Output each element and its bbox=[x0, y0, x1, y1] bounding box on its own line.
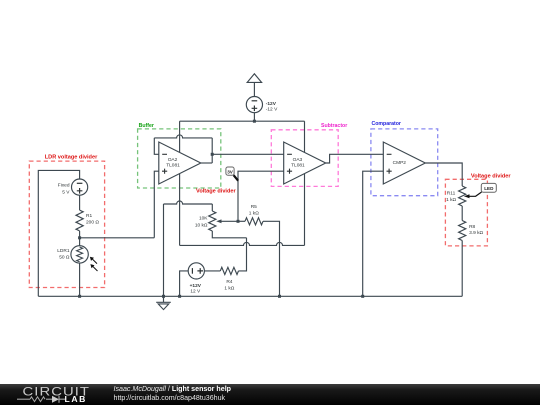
wire OA2 output bbox=[201, 162, 212, 164]
group box: Subtractor bbox=[271, 130, 338, 187]
wire R8 to ground bus bbox=[461, 241, 463, 297]
wire LDR1 to ground bus bbox=[79, 263, 81, 296]
node label LED bbox=[481, 183, 496, 192]
svg-text:1 kΩ: 1 kΩ bbox=[446, 197, 456, 203]
svg-text:1 kΩ: 1 kΩ bbox=[224, 286, 234, 292]
svg-text:R1: R1 bbox=[86, 213, 92, 219]
wire ground bus bbox=[38, 295, 462, 297]
wire V2 minus to ground bus bbox=[180, 271, 189, 296]
wire CMP2 non-inverting input to ground bus bbox=[363, 171, 384, 296]
svg-text:-12V: -12V bbox=[266, 101, 277, 107]
wire V1 top around left to ground bus bbox=[38, 170, 79, 296]
svg-text:Voltage divider: Voltage divider bbox=[471, 174, 512, 180]
wire node A to buffer input bbox=[80, 237, 155, 239]
svg-text:LED: LED bbox=[484, 186, 494, 191]
junction: wiper node (3V) bbox=[237, 220, 240, 223]
node label 3V bbox=[226, 167, 238, 181]
photoresistor LDR1 bbox=[71, 246, 88, 263]
wire pot top down to ground bus bbox=[163, 204, 165, 296]
group box: Voltage divider (right) bbox=[445, 179, 487, 246]
junction: V2 to ground bus bbox=[178, 295, 181, 298]
group box: Comparator bbox=[371, 129, 438, 196]
resistor R1 bbox=[76, 210, 83, 231]
wire V2 plus to R4 bbox=[204, 270, 220, 272]
wire R4 to pot bottom riser bbox=[239, 238, 247, 271]
svg-text:-12 V: -12 V bbox=[266, 106, 278, 112]
svg-text:OA3: OA3 bbox=[293, 157, 303, 163]
svg-text:TL081: TL081 bbox=[291, 163, 305, 169]
svg-text:R4: R4 bbox=[226, 279, 232, 285]
wire negative supply top bus bbox=[180, 120, 305, 122]
svg-text:1 kΩ: 1 kΩ bbox=[249, 211, 259, 217]
svg-text:200 Ω: 200 Ω bbox=[86, 220, 99, 226]
svg-text:5 V: 5 V bbox=[62, 189, 70, 195]
pot wiper arrow bbox=[216, 219, 238, 223]
wire node A to LDR1 bbox=[79, 238, 81, 246]
svg-text:LAB: LAB bbox=[65, 394, 87, 404]
wire V- rail with two hops bbox=[180, 242, 305, 245]
wire V3 bottom to bus bbox=[253, 113, 255, 122]
banner line 1 bbox=[114, 385, 232, 393]
svg-text:OA2: OA2 bbox=[168, 157, 178, 163]
wire pot top lead bbox=[211, 204, 213, 211]
wire OA2 inverting input up bbox=[154, 138, 159, 154]
CircuitLab logo bbox=[0, 384, 110, 405]
voltage source V3 (-12V) bbox=[246, 97, 262, 113]
junction: LDR1 to ground bus bbox=[78, 295, 81, 298]
svg-text:LDR1: LDR1 bbox=[57, 248, 70, 254]
junction: buffer output node bbox=[211, 153, 214, 156]
logo doodle resistor bbox=[30, 397, 45, 402]
wire V1 bottom to R1 bbox=[79, 195, 81, 210]
power flag (supply arrow) bbox=[247, 74, 261, 83]
potentiometer 10K bbox=[209, 211, 216, 231]
junction: ground node on bus bbox=[162, 295, 165, 298]
resistor R4 bbox=[220, 267, 238, 274]
junction: CMP2 ref to ground bus bbox=[361, 295, 364, 298]
junction: V3 to top bus bbox=[253, 120, 256, 123]
group box: LDR voltage divider bbox=[29, 161, 104, 287]
wire wiper to OA3 non-inverting input bbox=[238, 171, 284, 221]
svg-text:3V: 3V bbox=[227, 170, 234, 175]
op-amp CMP2 bbox=[383, 142, 425, 184]
svg-text:3.9 kΩ: 3.9 kΩ bbox=[469, 230, 483, 236]
wire OA2 V- pin down bbox=[179, 174, 181, 246]
svg-text:R5: R5 bbox=[251, 204, 257, 210]
svg-text:CMP2: CMP2 bbox=[393, 160, 407, 166]
wire CMP2 output to R11 bbox=[425, 163, 462, 186]
svg-text:TL081: TL081 bbox=[166, 163, 180, 169]
voltage source V2 (+12V) bbox=[188, 263, 204, 279]
logo doodle wire bbox=[17, 398, 30, 400]
banner line 2 bbox=[114, 394, 226, 402]
wire feedback down to output bbox=[211, 138, 213, 163]
svg-text:10K: 10K bbox=[199, 215, 208, 221]
wire R5 to ground bus bbox=[263, 221, 280, 296]
wire R11 to R8 bbox=[461, 206, 463, 221]
op-amp OA3 bbox=[284, 142, 326, 184]
wire OA3 V+ pin bbox=[304, 121, 306, 152]
LDR light arrow 2 bbox=[90, 264, 97, 271]
wire R1 to node A bbox=[79, 231, 81, 238]
wire OA2 V+ pin bbox=[179, 121, 181, 152]
junction: node A (R1/LDR1 midpoint) bbox=[78, 236, 81, 239]
resistor R8 bbox=[459, 221, 466, 241]
node label LED pointer arrow bbox=[464, 192, 482, 198]
resistor R11 bbox=[459, 186, 466, 206]
wire pot top with hop bbox=[164, 201, 213, 204]
svg-text:R11: R11 bbox=[447, 191, 456, 197]
svg-text:Comparator: Comparator bbox=[372, 121, 401, 127]
wire feedback with hop over supply bbox=[154, 135, 212, 138]
svg-text:LDR voltage divider: LDR voltage divider bbox=[45, 154, 98, 160]
junction: R5 to ground bus bbox=[278, 295, 281, 298]
wire wiper node to R5 bbox=[238, 220, 245, 222]
logo doodle diode bbox=[52, 396, 59, 403]
wire OA3 V- pin down bbox=[304, 174, 306, 246]
voltage source V1 (Fixed 5V) bbox=[72, 179, 88, 195]
wire pot bottom bbox=[212, 231, 246, 238]
wire OA2 non-inverting input down to node A bbox=[154, 171, 159, 238]
LDR light arrow 1 bbox=[90, 257, 97, 264]
wire flag to V3 top bbox=[253, 82, 255, 96]
wire buffer output to OA3 inverting input bbox=[212, 153, 284, 155]
svg-text:Buffer: Buffer bbox=[139, 123, 154, 129]
svg-text:10 kΩ: 10 kΩ bbox=[195, 223, 208, 229]
group box: Buffer bbox=[138, 129, 221, 188]
ground bbox=[156, 296, 171, 309]
svg-text:Subtractor: Subtractor bbox=[321, 123, 347, 129]
svg-text:Voltage divider: Voltage divider bbox=[196, 189, 237, 195]
wire OA3 output jog to CMP2 inverting input bbox=[326, 154, 384, 163]
svg-text:50 Ω: 50 Ω bbox=[59, 255, 70, 261]
svg-text:12 V: 12 V bbox=[190, 288, 201, 294]
bottom banner bbox=[0, 384, 540, 405]
svg-text:+12V: +12V bbox=[190, 283, 202, 289]
svg-text:Fixed: Fixed bbox=[58, 182, 70, 188]
svg-text:R8: R8 bbox=[469, 224, 475, 230]
op-amp OA2 bbox=[159, 142, 201, 184]
